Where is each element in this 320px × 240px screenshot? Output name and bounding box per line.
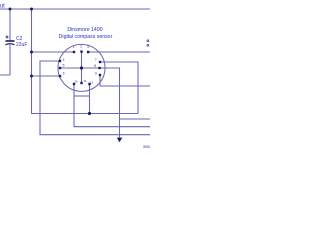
svg-text:10: 10 <box>74 80 78 84</box>
svg-text:9: 9 <box>95 72 97 76</box>
svg-text:5: 5 <box>63 64 65 68</box>
svg-text:12: 12 <box>90 81 94 85</box>
wire pin7 lead <box>100 62 138 114</box>
svg-text:4: 4 <box>63 58 65 62</box>
junction center cross <box>80 66 83 69</box>
wire C2 bottom lead to left edge <box>0 45 10 76</box>
junction bus pin6 <box>30 75 33 78</box>
sensor U1 circle outline <box>58 44 105 91</box>
wire +V vertical bus x=32 <box>32 9 139 114</box>
wire pin10 lead <box>74 84 150 127</box>
svg-text:Digital compass sensor: Digital compass sensor <box>59 34 113 40</box>
svg-text:2: 2 <box>80 45 82 49</box>
wire pin9 lead <box>100 75 150 86</box>
capacitor C2 <box>6 36 15 45</box>
pin pads left 4 5 6 <box>59 60 61 62</box>
wire pin10-pin12 tie bar <box>74 95 90 97</box>
svg-text:11: 11 <box>83 79 86 83</box>
svg-text:22uF: 22uF <box>16 42 27 48</box>
wire pin6 lead <box>32 75 61 77</box>
junction bus pin1 <box>30 51 33 54</box>
svg-text:«: « <box>146 43 150 49</box>
pin pads right 7 8 9 <box>99 61 101 63</box>
svg-text:www.: www. <box>143 144 150 149</box>
svg-text:7: 7 <box>95 58 97 62</box>
wire pin5 lead to center <box>60 67 82 69</box>
wire pin8 lead to ground <box>82 68 120 138</box>
wire pin1 lead <box>32 51 75 53</box>
svg-text:Dinsmore 1490: Dinsmore 1490 <box>67 27 102 33</box>
svg-text:1: 1 <box>73 45 75 49</box>
junction pin12 on bottom bus <box>88 112 91 115</box>
wire pin12 lead <box>89 84 91 114</box>
svg-text:out: out <box>0 4 5 10</box>
wire center vertical pin2-pin11 <box>81 52 83 84</box>
svg-text:8: 8 <box>94 64 96 68</box>
wire top +V rail <box>0 8 150 10</box>
ground <box>117 138 123 143</box>
pin pads top 1 2 3 <box>59 50 101 85</box>
wire pin3 lead to right edge <box>88 51 150 53</box>
wire C2 branch vertical <box>9 9 11 41</box>
wire pin4 lead <box>40 61 150 135</box>
svg-text:6: 6 <box>63 71 65 75</box>
junction top rail at C2 <box>9 8 12 11</box>
wire ground branch right <box>120 118 151 120</box>
pin pads bottom 10 11 12 <box>73 83 75 85</box>
pin numbers top <box>63 45 97 85</box>
svg-text:3: 3 <box>87 45 89 49</box>
junction top rail at bus <box>30 8 33 11</box>
